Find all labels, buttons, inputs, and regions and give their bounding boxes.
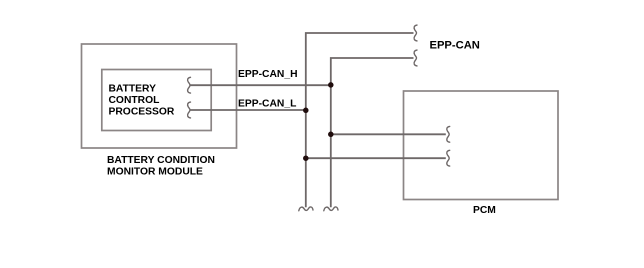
label BATTERY CONDITION MONITOR MODULE [107, 155, 215, 177]
connector squiggle, EPP-CAN_L pin at module [188, 102, 191, 118]
svg-text:CONTROL: CONTROL [109, 95, 160, 106]
connector squiggle, EPP-CAN_H pin at module [188, 77, 191, 93]
connector squiggle, PCM lower pin [447, 150, 450, 166]
connector squiggle, PCM upper pin [447, 126, 450, 142]
junction dot, bus A to PCM wire [303, 155, 309, 161]
svg-text:MONITOR MODULE: MONITOR MODULE [107, 167, 203, 178]
box BATTERY CONTROL PROCESSOR (inner) [102, 70, 211, 131]
wire bus A (left vertical, turns right at top toward EPP-CAN) [306, 33, 414, 207]
break symbol, bus A bottom [299, 207, 313, 211]
svg-text:BATTERY: BATTERY [109, 84, 157, 95]
wire bus B (right vertical, turns right at top toward EPP-CAN) [331, 58, 414, 207]
wire bus B to PCM (upper) [331, 133, 446, 135]
svg-text:PCM: PCM [473, 205, 496, 216]
wire bus A to PCM (lower) [306, 157, 446, 159]
connector squiggle, EPP-CAN upper end [414, 25, 417, 41]
svg-text:EPP-CAN_L: EPP-CAN_L [238, 98, 296, 109]
break symbol, bus B bottom [324, 207, 338, 211]
junction dot, EPP-CAN_H on bus B [328, 82, 334, 88]
wire EPP-CAN_H (module to bus B) [191, 84, 331, 86]
svg-text:PROCESSOR: PROCESSOR [109, 106, 175, 117]
wire EPP-CAN_L (module to bus A) [191, 109, 306, 111]
svg-text:EPP-CAN_H: EPP-CAN_H [238, 69, 298, 80]
svg-text:BATTERY CONDITION: BATTERY CONDITION [107, 155, 215, 166]
connector squiggle, EPP-CAN lower end [414, 50, 417, 66]
box BATTERY CONDITION MONITOR MODULE (outer) [82, 44, 237, 148]
junction dot, bus B to PCM wire [328, 132, 334, 138]
svg-text:EPP-CAN: EPP-CAN [430, 40, 480, 52]
label BATTERY CONTROL PROCESSOR [109, 84, 175, 118]
junction dot, EPP-CAN_L on bus A [303, 108, 309, 114]
box PCM [404, 91, 559, 200]
